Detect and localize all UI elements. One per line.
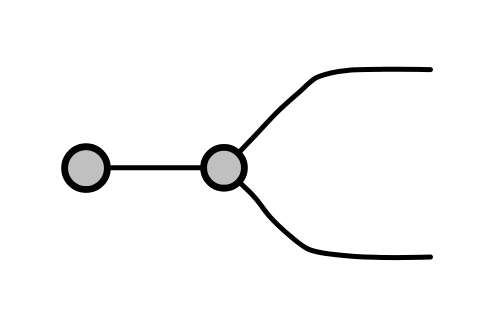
wire: upper branch from node B — [224, 69, 431, 168]
wire: horizontal edge between node A and node B — [86, 165, 224, 170]
node A (left circle) — [65, 147, 108, 190]
wire: lower branch from node B — [224, 168, 431, 258]
node B (right circle, junction) — [204, 147, 245, 188]
